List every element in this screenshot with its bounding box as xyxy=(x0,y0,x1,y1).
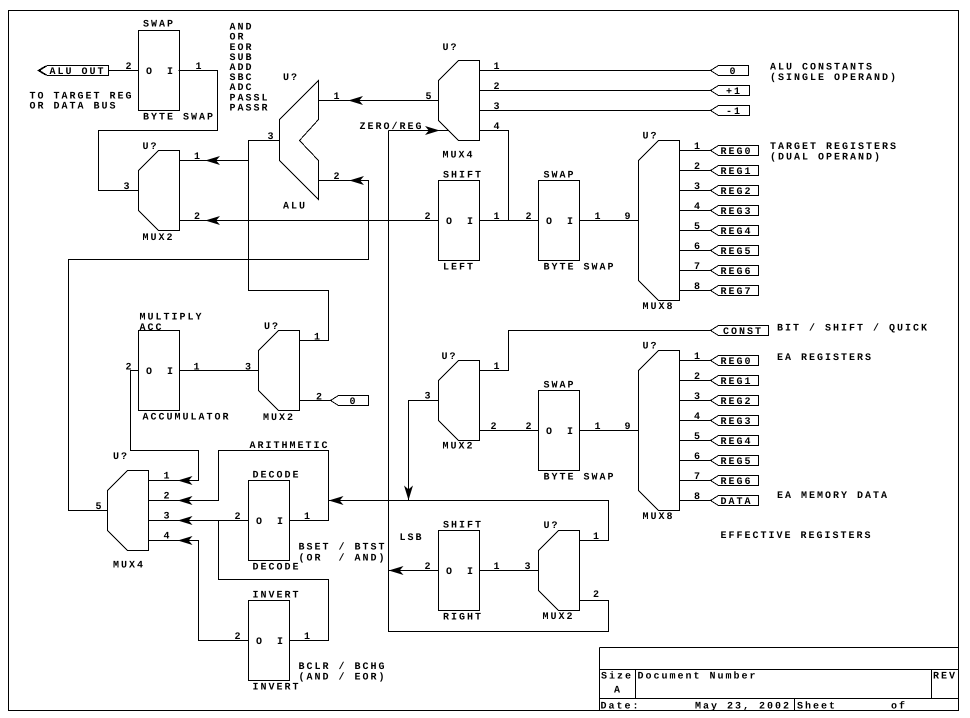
svg-text:REG6: REG6 xyxy=(721,477,753,488)
svg-text:BYTE SWAP: BYTE SWAP xyxy=(143,113,215,124)
mux2 U4 (accumulator select) xyxy=(259,331,300,411)
flow arrow xyxy=(207,217,219,224)
port REG5 (EA) xyxy=(711,456,759,466)
svg-text:DECODE: DECODE xyxy=(253,562,301,573)
mux4 U8 pin4 wire from invert output xyxy=(149,541,249,641)
svg-text:7: 7 xyxy=(694,262,702,273)
svg-text:OR DATA BUS: OR DATA BUS xyxy=(30,102,118,113)
svg-text:2: 2 xyxy=(316,392,324,403)
mux8 U3 pin2 wire xyxy=(680,170,711,172)
port REG2 (EA) xyxy=(711,396,759,406)
svg-text:2: 2 xyxy=(126,362,134,373)
port 0 (acc) xyxy=(331,396,369,406)
port REG4 (EA) xyxy=(711,436,759,446)
svg-text:I: I xyxy=(167,367,175,378)
svg-text:1: 1 xyxy=(194,362,202,373)
svg-text:U?: U? xyxy=(283,73,299,84)
mux2 U6 pin3 wire down with arrow to decode wire xyxy=(409,401,439,501)
svg-text:SWAP: SWAP xyxy=(143,19,175,30)
flow arrow xyxy=(180,497,192,504)
svg-text:REG5: REG5 xyxy=(721,457,753,468)
svg-text:6: 6 xyxy=(694,242,702,253)
svg-text:REG0: REG0 xyxy=(721,147,753,158)
svg-text:+1: +1 xyxy=(726,87,742,98)
svg-text:RIGHT: RIGHT xyxy=(443,612,483,623)
svg-text:2: 2 xyxy=(494,82,502,93)
svg-text:2: 2 xyxy=(194,212,202,223)
svg-text:I: I xyxy=(467,217,475,228)
svg-text:SWAP: SWAP xyxy=(544,170,576,181)
svg-text:I: I xyxy=(167,67,175,78)
svg-text:1: 1 xyxy=(494,62,502,73)
svg-text:O: O xyxy=(546,427,554,438)
flow arrow xyxy=(207,157,219,164)
mux8 U7 pin4 wire xyxy=(680,420,711,422)
mux4 U2 pin4 wire down to shift-left wire xyxy=(480,131,509,221)
svg-text:4: 4 xyxy=(694,412,702,423)
mux2 U6 pin2 wire to byte-swap3 pin2 xyxy=(480,430,539,432)
svg-text:I: I xyxy=(467,567,475,578)
svg-text:3: 3 xyxy=(425,391,433,402)
svg-text:(OR / AND): (OR / AND) xyxy=(299,552,387,564)
svg-text:2: 2 xyxy=(334,172,342,183)
svg-text:O: O xyxy=(546,217,554,228)
svg-text:U?: U? xyxy=(643,341,659,352)
svg-text:1: 1 xyxy=(304,632,312,643)
port +1 xyxy=(711,86,750,96)
flow arrow xyxy=(351,177,363,184)
svg-text:EFFECTIVE REGISTERS: EFFECTIVE REGISTERS xyxy=(721,531,873,542)
port REG0 xyxy=(711,146,759,156)
svg-text:1: 1 xyxy=(494,362,502,373)
mux8 U3 pin7 wire xyxy=(680,270,711,272)
svg-text:Date:: Date: xyxy=(601,701,641,712)
ALU pin1 wire from MUX4 pin5 xyxy=(319,100,439,102)
flow arrow xyxy=(350,97,362,104)
svg-text:MUX4: MUX4 xyxy=(443,150,475,161)
svg-text:REG1: REG1 xyxy=(721,167,753,178)
mux8 U3 pin6 wire xyxy=(680,250,711,252)
svg-text:2: 2 xyxy=(526,422,534,433)
mux2 U1 pin2 wire (long, from SHIFT LEFT pin2) xyxy=(180,220,439,222)
svg-text:MUX2: MUX2 xyxy=(143,233,175,244)
mux4 U2 pin2 wire to port +1 xyxy=(480,90,711,92)
svg-text:U?: U? xyxy=(113,452,129,463)
port REG6 xyxy=(711,266,759,276)
svg-text:0: 0 xyxy=(730,67,738,78)
svg-text:REG3: REG3 xyxy=(721,207,753,218)
svg-text:3: 3 xyxy=(124,182,132,193)
svg-text:MUX2: MUX2 xyxy=(263,413,295,424)
mux8 U3 pin5 wire xyxy=(680,230,711,232)
flow arrow xyxy=(405,487,412,499)
acc pin2 wire to mux4 (bottom) pin1 xyxy=(131,371,199,481)
svg-text:0: 0 xyxy=(350,397,358,408)
svg-text:SHIFT: SHIFT xyxy=(443,520,483,531)
svg-text:REG4: REG4 xyxy=(721,227,753,238)
svg-text:I: I xyxy=(567,217,575,228)
svg-text:ARITHMETIC: ARITHMETIC xyxy=(250,441,330,452)
flow arrow xyxy=(331,497,343,504)
svg-text:3: 3 xyxy=(245,362,253,373)
port 0 xyxy=(711,66,749,76)
decode U? body xyxy=(249,481,290,561)
svg-text:ALU OUT: ALU OUT xyxy=(50,67,106,78)
svg-text:I: I xyxy=(567,427,575,438)
ZERO/REG vertical wire down to bottom mux2 xyxy=(389,131,609,632)
svg-text:4: 4 xyxy=(494,122,502,133)
svg-text:3: 3 xyxy=(694,392,702,403)
port REG1 (EA) xyxy=(711,376,759,386)
svg-text:6: 6 xyxy=(694,452,702,463)
svg-text:SWAP: SWAP xyxy=(544,380,576,391)
svg-text:5: 5 xyxy=(694,222,702,233)
svg-text:REG2: REG2 xyxy=(721,397,753,408)
svg-text:MUX2: MUX2 xyxy=(443,442,475,453)
svg-text:2: 2 xyxy=(425,562,433,573)
svg-text:INVERT: INVERT xyxy=(253,590,301,601)
svg-text:O: O xyxy=(446,567,454,578)
svg-text:SHIFT: SHIFT xyxy=(443,170,483,181)
svg-text:1: 1 xyxy=(304,512,312,523)
svg-text:BIT / SHIFT / QUICK: BIT / SHIFT / QUICK xyxy=(777,322,929,334)
svg-text:REG1: REG1 xyxy=(721,377,753,388)
ALU U? symbol xyxy=(280,81,319,200)
byte-swap2 U? body xyxy=(539,181,580,261)
svg-text:5: 5 xyxy=(694,432,702,443)
svg-text:MUX2: MUX2 xyxy=(543,612,575,623)
svg-text:O: O xyxy=(256,517,264,528)
svg-text:U?: U? xyxy=(643,131,659,142)
svg-text:8: 8 xyxy=(694,492,702,503)
wire shift-left pin1 to byte-swap2 pin2 xyxy=(480,220,539,222)
svg-text:EA MEMORY DATA: EA MEMORY DATA xyxy=(777,491,889,502)
svg-text:REG4: REG4 xyxy=(721,437,753,448)
svg-text:ACCUMULATOR: ACCUMULATOR xyxy=(143,412,231,423)
flow arrow xyxy=(391,567,403,574)
svg-text:U?: U? xyxy=(442,352,458,363)
svg-text:MUX4: MUX4 xyxy=(113,561,145,572)
port REG1 xyxy=(711,166,759,176)
byte-swap U? (top) body xyxy=(139,31,180,111)
svg-text:ZERO/REG: ZERO/REG xyxy=(360,121,424,133)
svg-text:DECODE: DECODE xyxy=(253,470,301,481)
svg-text:-1: -1 xyxy=(726,107,742,118)
svg-text:BYTE SWAP: BYTE SWAP xyxy=(544,472,616,483)
svg-text:2: 2 xyxy=(235,512,243,523)
svg-text:3: 3 xyxy=(694,182,702,193)
mux8 U7 pin8 wire xyxy=(680,500,711,502)
mux2 U1 (feeds byte swap) xyxy=(139,151,180,231)
mux4 U8 pin2 wire from decode xyxy=(149,451,329,521)
svg-text:LSB: LSB xyxy=(400,533,424,544)
ALU pin3 output wire to MUX2 U1 pin1 and MUX2 (acc) pin1 xyxy=(249,141,329,341)
port REG3 (EA) xyxy=(711,416,759,426)
svg-text:PASSR: PASSR xyxy=(230,103,270,114)
accumulator U? body xyxy=(139,331,180,411)
invert U? body xyxy=(249,601,290,681)
svg-text:5: 5 xyxy=(96,502,104,513)
svg-text:LEFT: LEFT xyxy=(443,262,475,273)
mux2 U1 pin1 wire from ALU output xyxy=(180,160,249,162)
title block frame xyxy=(600,647,959,649)
shift-right pin1 wire to mux2 U9 pin3 xyxy=(480,570,539,572)
svg-text:REG7: REG7 xyxy=(721,287,753,298)
svg-text:1: 1 xyxy=(595,212,603,223)
svg-text:1: 1 xyxy=(314,332,322,343)
flow arrow xyxy=(427,127,439,134)
svg-text:O: O xyxy=(446,217,454,228)
wire ALU OUT to U? BYTE SWAP pin 2 xyxy=(109,70,139,72)
flow arrow xyxy=(180,537,192,544)
flow arrow xyxy=(180,517,192,524)
svg-text:(AND / EOR): (AND / EOR) xyxy=(299,671,387,683)
svg-text:A: A xyxy=(614,685,622,696)
svg-text:of: of xyxy=(891,700,907,712)
svg-text:7: 7 xyxy=(694,472,702,483)
svg-text:May 23, 2002: May 23, 2002 xyxy=(695,701,791,712)
port ALU OUT xyxy=(40,66,109,76)
shift-left U? body xyxy=(439,181,480,261)
mux8 U7 pin2 wire xyxy=(680,380,711,382)
svg-text:5: 5 xyxy=(426,92,434,103)
mux2 U9 (shift/LSB select) xyxy=(539,531,580,611)
svg-text:BSET / BTST: BSET / BTST xyxy=(299,541,387,553)
port REG7 xyxy=(711,286,759,296)
svg-text:(DUAL OPERAND): (DUAL OPERAND) xyxy=(770,151,882,163)
svg-text:1: 1 xyxy=(494,562,502,573)
svg-text:2: 2 xyxy=(126,62,134,73)
svg-text:O: O xyxy=(146,67,154,78)
ZERO/REG select wire into mux4 U2 xyxy=(389,130,449,132)
svg-text:1: 1 xyxy=(694,142,702,153)
svg-text:1: 1 xyxy=(164,471,172,482)
svg-text:1: 1 xyxy=(595,422,603,433)
svg-text:MUX8: MUX8 xyxy=(643,512,675,523)
byte-swap3 U? body xyxy=(539,391,580,471)
svg-text:3: 3 xyxy=(494,102,502,113)
port DATA (EA) xyxy=(711,496,759,506)
svg-text:ALU: ALU xyxy=(283,201,307,212)
mux8 U7 (effective address registers) xyxy=(639,351,680,511)
mux8 U3 pin3 wire xyxy=(680,190,711,192)
mux8 U7 pin5 wire xyxy=(680,440,711,442)
svg-text:EA REGISTERS: EA REGISTERS xyxy=(777,353,873,364)
svg-text:O: O xyxy=(256,637,264,648)
port REG6 (EA) xyxy=(711,476,759,486)
port CONST xyxy=(711,326,769,336)
svg-text:8: 8 xyxy=(694,282,702,293)
svg-text:2: 2 xyxy=(425,212,433,223)
mux4 U2 pin1 wire to port 0 xyxy=(480,70,711,72)
mux8 U3 pin4 wire xyxy=(680,210,711,212)
svg-text:O: O xyxy=(146,367,154,378)
wire U? BYTE SWAP pin1 down to MUX2 pin3 xyxy=(99,71,218,191)
shift-right U? body xyxy=(439,531,480,611)
svg-text:Size: Size xyxy=(601,670,633,682)
mux8 U7 pin7 wire xyxy=(680,480,711,482)
mux8 U7 pin1 wire xyxy=(680,360,711,362)
wire byte-swap3 pin1 to mux8 U7 pin9 xyxy=(580,430,639,432)
svg-text:CONST: CONST xyxy=(723,327,763,338)
svg-text:Document Number: Document Number xyxy=(638,670,758,682)
mux8 U7 pin3 wire xyxy=(680,400,711,402)
svg-text:U?: U? xyxy=(143,142,159,153)
port REG5 xyxy=(711,246,759,256)
svg-text:2: 2 xyxy=(593,590,601,601)
svg-text:1: 1 xyxy=(694,352,702,363)
wire CONST to mux2 U6 pin1 xyxy=(480,331,711,371)
wire decode output down to invert pin1 xyxy=(219,521,329,641)
svg-text:REG5: REG5 xyxy=(721,247,753,258)
svg-text:9: 9 xyxy=(625,212,633,223)
port REG0 (EA) xyxy=(711,356,759,366)
svg-text:2: 2 xyxy=(491,422,499,433)
svg-text:2: 2 xyxy=(526,212,534,223)
port REG2 xyxy=(711,186,759,196)
svg-text:BYTE SWAP: BYTE SWAP xyxy=(544,262,616,273)
svg-text:REG0: REG0 xyxy=(721,357,753,368)
svg-text:1: 1 xyxy=(593,532,601,543)
svg-text:ACC: ACC xyxy=(140,323,164,334)
mux4 U2 (ALU constants select) xyxy=(439,61,480,141)
svg-text:1: 1 xyxy=(334,92,342,103)
shift-right pin2 wire to ZERO/REG vertical xyxy=(389,570,439,572)
svg-text:DATA: DATA xyxy=(721,497,753,508)
svg-text:1: 1 xyxy=(196,62,204,73)
svg-text:U?: U? xyxy=(544,521,560,532)
mux4 U8 (writeback select) xyxy=(108,471,149,551)
svg-text:REG3: REG3 xyxy=(721,417,753,428)
svg-text:REV: REV xyxy=(933,671,957,682)
port -1 xyxy=(711,106,750,116)
flow arrow xyxy=(180,477,192,484)
mux4 U8 pin3 wire from decode output xyxy=(149,520,249,522)
mux8 U3 pin1 wire xyxy=(680,150,711,152)
svg-text:U?: U? xyxy=(443,43,459,54)
ALU pin2 wire from MUX4 (bottom) pin5 - long feedback xyxy=(69,181,369,511)
svg-text:9: 9 xyxy=(625,422,633,433)
wire from mux2 U9 pin1 to decode chain (LSB loop) xyxy=(329,501,609,541)
mux4 U2 pin3 wire to port -1 xyxy=(480,110,711,112)
svg-text:2: 2 xyxy=(694,162,702,173)
svg-text:3: 3 xyxy=(268,132,276,143)
svg-text:3: 3 xyxy=(525,562,533,573)
port REG3 xyxy=(711,206,759,216)
svg-text:2: 2 xyxy=(235,632,243,643)
svg-text:4: 4 xyxy=(694,202,702,213)
mux8 U3 (target registers) xyxy=(639,141,680,301)
mux8 U3 pin8 wire xyxy=(680,290,711,292)
acc pin1 wire to mux2 (acc) pin3 xyxy=(180,370,259,372)
svg-text:REG6: REG6 xyxy=(721,267,753,278)
mux2 U6 (EA select) xyxy=(439,361,480,441)
mux8 U7 pin6 wire xyxy=(680,460,711,462)
svg-text:2: 2 xyxy=(694,372,702,383)
svg-text:REG2: REG2 xyxy=(721,187,753,198)
svg-text:(SINGLE OPERAND): (SINGLE OPERAND) xyxy=(770,72,898,84)
svg-text:I: I xyxy=(277,637,285,648)
svg-text:Sheet: Sheet xyxy=(797,700,837,712)
port REG4 xyxy=(711,226,759,236)
svg-text:1: 1 xyxy=(194,152,202,163)
svg-text:INVERT: INVERT xyxy=(253,682,301,693)
mux2 U4 pin2 wire to port 0 xyxy=(300,400,331,402)
svg-text:MUX8: MUX8 xyxy=(643,302,675,313)
svg-text:1: 1 xyxy=(494,212,502,223)
svg-text:U?: U? xyxy=(264,322,280,333)
svg-text:I: I xyxy=(277,517,285,528)
svg-text:BCLR / BCHG: BCLR / BCHG xyxy=(299,661,387,673)
wire byte-swap2 pin1 to mux8 pin9 xyxy=(580,220,639,222)
